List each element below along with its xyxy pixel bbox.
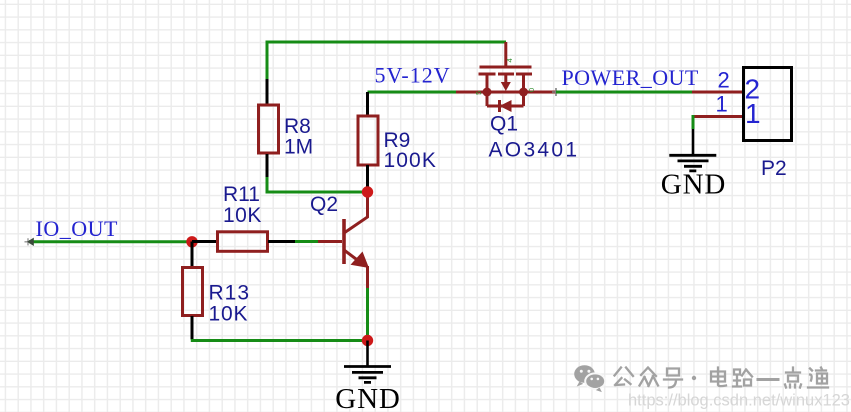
connector P2 pin 2 name	[745, 74, 761, 105]
transistor Q2 designator	[310, 193, 338, 216]
watermark wechat icon	[574, 365, 605, 392]
resistor R13	[183, 268, 203, 316]
transistor Q2 base pin	[318, 240, 342, 243]
wire top gate net vertical to R8	[266, 41, 269, 80]
svg-text:Q1: Q1	[490, 113, 518, 136]
resistor R9	[358, 116, 378, 165]
svg-text:R13: R13	[209, 282, 251, 305]
svg-text:1: 1	[745, 98, 761, 129]
公	[615, 368, 634, 386]
ground GND at Q2 label	[335, 383, 401, 412]
mosfet Q1 drain pin number	[527, 88, 536, 92]
connector P2 pin 1 number	[716, 92, 728, 117]
net label 5V-12V	[375, 63, 451, 88]
svg-text:https://blog.csdn.net/winux123: https://blog.csdn.net/winux123	[628, 392, 850, 410]
通	[808, 368, 828, 388]
mosfet Q1 source pin number	[474, 91, 483, 95]
svg-text:1: 1	[716, 92, 728, 117]
svg-text:100K: 100K	[384, 149, 437, 172]
connector P2 pin 2	[692, 91, 742, 94]
mosfet Q1 source pin	[456, 91, 487, 94]
ground GND at P2	[669, 129, 716, 171]
mosfet Q1 source leg	[486, 74, 489, 92]
wire emitter to ground node	[366, 288, 369, 341]
mosfet Q1 drain pin	[524, 91, 557, 94]
resistor R13 top pin	[191, 242, 194, 267]
wire IO_OUT end arrow	[25, 238, 34, 246]
wire POWER_OUT	[556, 91, 692, 94]
resistor R11 right pin	[268, 240, 295, 243]
svg-text:5V-12V: 5V-12V	[375, 63, 451, 88]
电	[711, 368, 726, 387]
transistor Q2 base bar	[342, 219, 346, 264]
resistor R8 designator	[284, 115, 311, 138]
mosfet Q1 designator	[490, 113, 518, 136]
mosfet Q1 source junction dot	[483, 88, 492, 97]
watermark text 公众号·电路一点通	[615, 368, 829, 388]
mosfet Q1 substrate arrow	[501, 74, 511, 91]
ground GND at P2 label	[661, 169, 727, 201]
mosfet Q1 pin end cross	[552, 88, 560, 96]
svg-text:P2: P2	[761, 157, 787, 180]
svg-text:Q2: Q2	[310, 193, 338, 216]
transistor Q2 emitter	[344, 250, 369, 289]
点	[785, 368, 801, 388]
wire R8 bottom to node	[266, 177, 368, 192]
mosfet Q1 drain plate	[516, 73, 532, 76]
resistor R9 designator	[384, 129, 411, 152]
connector P2 pin 2 number	[718, 68, 730, 93]
mosfet Q1 gate pin number 4	[505, 58, 514, 62]
wire GND stub at P2	[692, 115, 695, 129]
resistor R11 designator	[223, 183, 260, 206]
resistor R13 designator	[209, 282, 251, 305]
connector P2 designator	[761, 157, 787, 180]
wire R13 bottom to ground node	[191, 339, 368, 342]
svg-text:4: 4	[505, 58, 514, 62]
connector P2 body	[744, 68, 792, 141]
transistor Q2 collector	[344, 192, 368, 233]
net label POWER_OUT	[562, 65, 699, 90]
resistor R8 value 1M	[284, 136, 313, 159]
resistor R9 bottom pin	[366, 165, 369, 192]
resistor R11	[218, 232, 268, 252]
wire top gate net horizontal	[267, 41, 506, 44]
mosfet Q1 channel bar	[487, 91, 524, 94]
resistor R8 top pin	[266, 79, 269, 104]
resistor R8	[259, 105, 279, 153]
resistor R13 bottom pin	[191, 316, 194, 340]
svg-text:IO_OUT: IO_OUT	[36, 216, 118, 241]
node collector junction dot	[362, 186, 373, 197]
svg-text:0: 0	[527, 88, 536, 92]
svg-text:1M: 1M	[284, 136, 313, 159]
resistor R13 value 10K	[209, 303, 249, 326]
connector P2 pin 1	[693, 115, 742, 118]
号	[664, 369, 682, 388]
·	[692, 376, 696, 380]
mosfet Q1 gate bar	[480, 66, 532, 69]
connector P2 pin 1 name	[745, 98, 761, 129]
resistor R11 value 10K	[223, 204, 262, 227]
mosfet Q1 value AO3401	[489, 139, 580, 162]
mosfet Q1 source plate	[479, 73, 496, 76]
mosfet Q1 gate pin	[504, 42, 507, 66]
wire IO_OUT	[29, 240, 192, 243]
mosfet Q1 body diode legs	[487, 92, 524, 106]
mosfet Q1 drain junction dot	[519, 88, 528, 97]
svg-text:AO3401: AO3401	[489, 139, 580, 162]
svg-text:5: 5	[474, 91, 483, 95]
resistor R9 value 100K	[384, 149, 437, 172]
resistor R9 top pin	[366, 92, 369, 115]
mosfet Q1 drain leg	[522, 74, 525, 92]
wire 5V-12V	[368, 91, 457, 94]
mosfet Q1 middle plate	[498, 73, 514, 76]
众	[640, 368, 659, 387]
svg-text:10K: 10K	[209, 303, 249, 326]
一	[758, 378, 778, 381]
ground GND at Q2	[344, 341, 391, 383]
svg-text:GND: GND	[335, 383, 401, 412]
mosfet Q1 body diode	[500, 100, 512, 112]
svg-text:2: 2	[718, 68, 730, 93]
resistor R11 left pin	[192, 240, 216, 243]
svg-text:GND: GND	[661, 169, 727, 201]
node base junction dot	[186, 236, 197, 247]
resistor R8 bottom pin	[266, 154, 269, 177]
node emitter ground junction dot	[362, 335, 373, 346]
net label IO_OUT	[36, 216, 118, 241]
svg-text:POWER_OUT: POWER_OUT	[562, 65, 699, 90]
svg-text:R11: R11	[223, 183, 260, 206]
wire R11 to Q2 base	[295, 240, 318, 243]
watermark url	[628, 392, 850, 410]
路	[733, 370, 752, 387]
svg-text:10K: 10K	[223, 204, 262, 227]
